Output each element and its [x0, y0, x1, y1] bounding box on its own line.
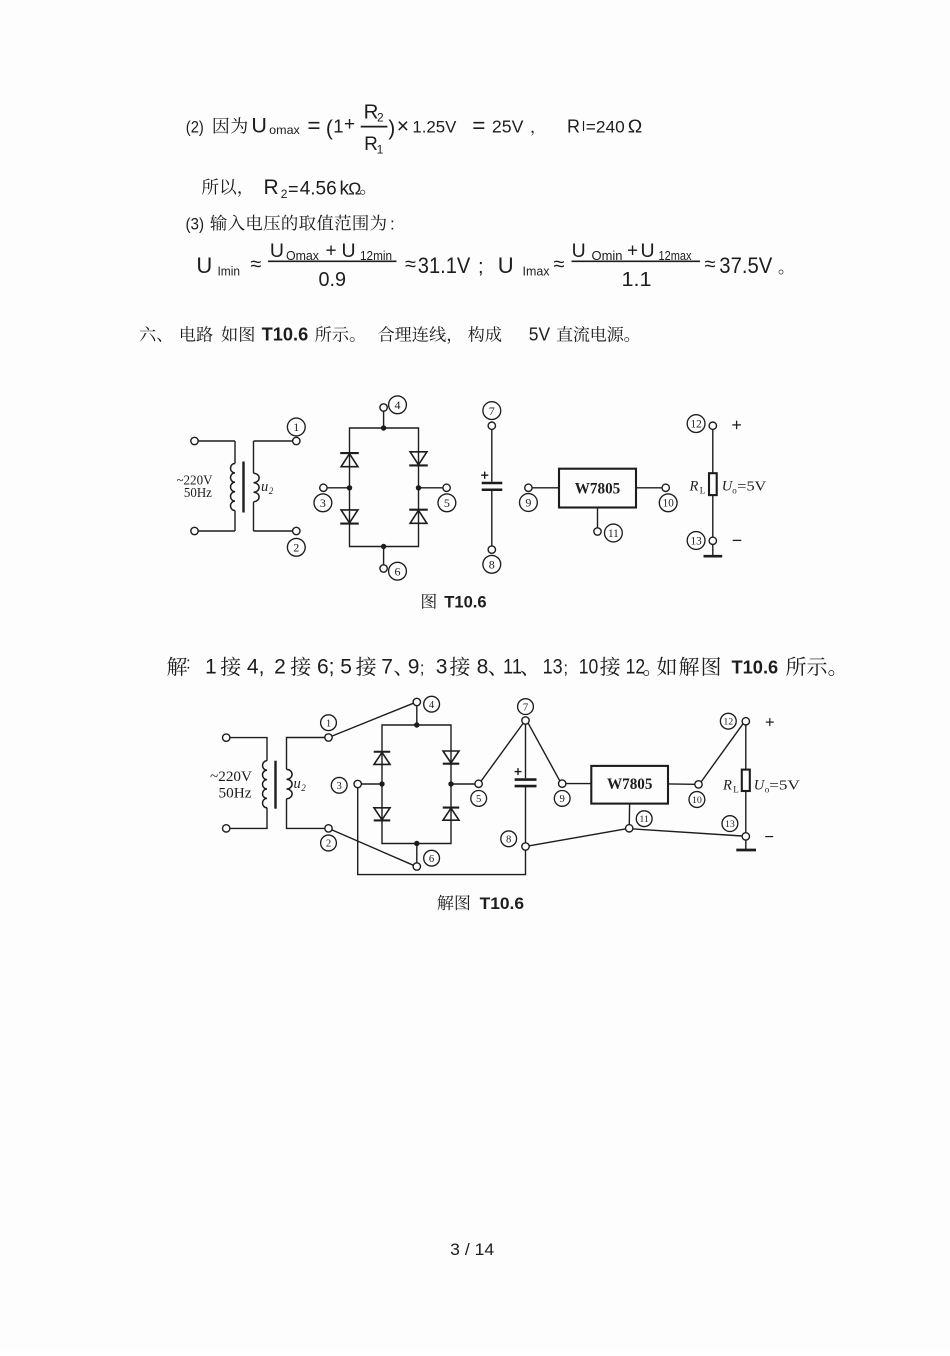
transformer T2 primary winding [263, 761, 268, 808]
svg-text:~220V: ~220V [210, 769, 252, 785]
diode D1b top-left [374, 752, 391, 765]
svg-text:;: ; [420, 659, 425, 678]
svg-text:2: 2 [326, 839, 331, 850]
svg-text:50Hz: 50Hz [184, 485, 212, 500]
svg-text:6: 6 [395, 564, 401, 578]
diode D2 bottom-left [340, 510, 359, 524]
label Uo=5V [722, 478, 767, 495]
svg-text:l: l [582, 119, 585, 134]
svg-text:10: 10 [663, 498, 675, 510]
junction dot node 3 [347, 485, 352, 490]
svg-text:×: × [397, 115, 409, 138]
svg-text:9: 9 [525, 496, 531, 510]
svg-text:=: = [288, 179, 299, 199]
label ~220V 50Hz [177, 472, 213, 500]
terminal small circle 11b [626, 825, 633, 832]
svg-text:=: = [472, 113, 485, 138]
svg-text:0.9: 0.9 [319, 269, 347, 291]
svg-text::: : [390, 215, 395, 234]
node 9 label b [554, 791, 570, 807]
svg-text:(2): (2) [186, 119, 204, 137]
svg-text:13: 13 [725, 819, 735, 830]
svg-text:10: 10 [579, 656, 599, 679]
terminal small circle 10b [695, 781, 702, 788]
svg-text:L: L [700, 485, 706, 495]
minus sign output [733, 539, 742, 541]
terminal small circle 8b [522, 843, 529, 850]
node 3 label b [331, 777, 347, 793]
terminal small circle 6b [413, 863, 420, 870]
terminal small circle 12b [742, 718, 749, 725]
svg-text:Imin: Imin [218, 265, 241, 279]
svg-text:+: + [326, 241, 337, 262]
wire 2 to 6 [332, 830, 413, 865]
terminal small circle 10 [662, 484, 669, 491]
wire 4 to bridge [416, 706, 418, 725]
regulator U2 W7805 box [591, 766, 668, 804]
svg-text:3: 3 [320, 496, 326, 510]
terminal small circle 3 [320, 484, 327, 491]
svg-text:25V: 25V [492, 117, 524, 137]
svg-text:R: R [722, 777, 732, 793]
svg-text:1: 1 [333, 116, 343, 137]
junction dot bottom b [414, 841, 419, 846]
svg-text:11: 11 [503, 656, 522, 679]
terminal small circle 3b [354, 780, 361, 787]
svg-text:8: 8 [489, 558, 495, 572]
label ~220V 50Hz b [210, 769, 252, 801]
svg-text:U: U [270, 240, 284, 262]
svg-text:1: 1 [377, 143, 384, 157]
svg-text:37.5V: 37.5V [719, 253, 772, 278]
terminal small circle 9b [559, 780, 566, 787]
wire 11 to 13 [633, 829, 742, 836]
node 5 label [438, 494, 456, 512]
svg-text:U: U [251, 114, 267, 138]
terminal small circle 9 [525, 484, 532, 491]
terminal small circle 11 [594, 528, 601, 535]
svg-text:U: U [641, 240, 655, 262]
svg-text:9: 9 [560, 794, 565, 805]
node 1 label b [321, 715, 337, 731]
node 9 label [520, 494, 538, 512]
node 7 label b [518, 699, 534, 715]
svg-text:11: 11 [608, 528, 619, 540]
svg-text:6;: 6; [317, 656, 335, 679]
transformer T1 core [242, 462, 244, 513]
svg-text:7: 7 [489, 404, 495, 418]
svg-text:50Hz: 50Hz [219, 785, 252, 801]
wire secondary bottom [254, 530, 293, 532]
svg-text:R: R [567, 117, 580, 137]
svg-text:;: ; [478, 256, 484, 278]
plus sign output b [766, 718, 774, 726]
capacitor C1 lead top [491, 429, 493, 481]
svg-text:U: U [572, 240, 586, 262]
svg-text:10: 10 [692, 795, 702, 806]
capacitor C2 polarity plus [515, 768, 522, 775]
svg-text:u: u [261, 479, 268, 495]
wire to terminal 3 [327, 487, 349, 489]
svg-text:U: U [498, 253, 514, 278]
solution text line [167, 654, 834, 679]
terminal small circle 1 [293, 437, 300, 444]
formula U_Imax [498, 240, 784, 291]
wire 7 to 9 [528, 723, 559, 780]
node 10 label [659, 494, 677, 512]
svg-text:1.25V: 1.25V [412, 118, 457, 137]
node 13 label b [722, 816, 738, 832]
wire 6 to bridge [416, 844, 418, 863]
wire to terminal 6 [383, 547, 385, 565]
wire T2 secondary top [287, 738, 325, 770]
svg-text:9: 9 [408, 656, 420, 679]
wire T2 primary bottom [230, 808, 267, 829]
wire primary bottom [198, 530, 235, 532]
ground bar [704, 555, 723, 558]
svg-text:5: 5 [444, 496, 450, 510]
label Uo=5V b [754, 777, 800, 794]
svg-text:2: 2 [293, 541, 299, 555]
svg-text:1: 1 [205, 656, 217, 679]
transformer T2 primary terminal bottom [223, 825, 230, 832]
terminal small circle 1b [325, 734, 332, 741]
node 1 label [287, 418, 305, 436]
terminal small circle 8 [488, 546, 495, 553]
svg-text:2: 2 [301, 783, 306, 793]
wire to terminal 4 [383, 411, 385, 428]
wire primary bottom down [234, 511, 236, 532]
node 12 label b [720, 713, 736, 729]
svg-text:U: U [196, 253, 212, 278]
svg-text:T10.6: T10.6 [262, 325, 309, 345]
svg-text:=5V: =5V [769, 777, 800, 792]
wire to terminal 5 [419, 487, 443, 489]
caption figure T10.6 [422, 594, 486, 612]
svg-text:2: 2 [274, 656, 286, 679]
svg-text:5V: 5V [529, 325, 550, 345]
svg-text:U: U [342, 240, 356, 262]
ground stub [712, 545, 714, 557]
node 6 label b [424, 850, 440, 866]
svg-text:=240: =240 [586, 118, 625, 137]
svg-text:5: 5 [476, 794, 481, 805]
wire 8 to 11 [529, 829, 625, 846]
terminal small circle 5 [443, 484, 450, 491]
wire secondary top riser [253, 441, 255, 473]
wire secondary top [254, 440, 293, 442]
svg-text:31.1V: 31.1V [418, 253, 471, 278]
transformer T1 primary winding [230, 464, 235, 511]
bridge rectifier B1 outline [350, 428, 419, 547]
transformer T1 primary terminal bottom [191, 527, 198, 534]
svg-text:Ω: Ω [628, 117, 643, 137]
minus sign output b [765, 836, 773, 838]
svg-text:4,: 4, [247, 656, 265, 679]
terminal small circle 6 [380, 565, 387, 572]
node 11 label b [636, 811, 652, 827]
regulator U1 W7805 box [559, 469, 636, 508]
wire regulator to 10b [668, 783, 695, 785]
svg-text:2: 2 [281, 187, 288, 201]
bridge rectifier B2 outline [382, 725, 451, 844]
node 4 label [389, 396, 407, 414]
svg-text:(3): (3) [186, 216, 205, 234]
node 3 label [314, 494, 332, 512]
wire 3 to 8 long [358, 788, 526, 875]
diode D1 top-left [340, 453, 359, 467]
wire T2 primary top [230, 738, 267, 761]
svg-text:4: 4 [395, 398, 401, 412]
capacitor C2 lead top [525, 724, 527, 778]
svg-text:omax: omax [269, 124, 300, 137]
svg-text:≈: ≈ [554, 254, 565, 276]
label u2 secondary voltage [261, 479, 274, 496]
svg-text:2: 2 [269, 486, 274, 496]
svg-text:1.1: 1.1 [622, 269, 652, 291]
junction dot top b [414, 722, 419, 727]
svg-text:8: 8 [477, 656, 489, 679]
svg-text:): ) [388, 117, 395, 140]
svg-text:7: 7 [523, 702, 529, 713]
svg-text:;: ; [563, 659, 568, 678]
text line suoyi R2=4.56k [202, 176, 365, 201]
node 6 label [389, 562, 407, 580]
wire secondary bottom riser [253, 502, 255, 531]
wire 9 to regulator [532, 487, 559, 489]
svg-text:Imax: Imax [523, 265, 551, 279]
node 8 label b [501, 831, 517, 847]
junction dot node 6 [381, 544, 386, 549]
wire 5 to 7 [481, 724, 523, 781]
svg-text:3 / 14: 3 / 14 [450, 1240, 494, 1259]
node 8 label [483, 555, 501, 573]
label RL2 [722, 777, 739, 794]
svg-text:W7805: W7805 [575, 480, 621, 497]
svg-text:(: ( [326, 117, 333, 140]
transformer T2 primary terminal top [223, 734, 230, 741]
node 13 label [687, 532, 705, 550]
fraction R2 over R1 [361, 100, 388, 156]
svg-text:12: 12 [691, 419, 702, 431]
svg-text:≈: ≈ [250, 254, 261, 276]
node 2 label b [321, 835, 337, 851]
wire T2 secondary bottom [287, 799, 325, 829]
svg-text:L: L [733, 784, 739, 794]
svg-text:11: 11 [639, 814, 649, 825]
text line (2) formula [186, 113, 643, 140]
transformer T2 core [274, 761, 276, 809]
svg-text:≈: ≈ [705, 254, 716, 276]
capacitor C2 plates [515, 780, 537, 787]
diode D3b top-right [443, 751, 460, 764]
svg-text:=5V: =5V [737, 478, 766, 493]
svg-text:13: 13 [691, 535, 703, 547]
diode D3 top-right [409, 452, 428, 466]
svg-text:1: 1 [293, 420, 299, 434]
svg-text:7: 7 [381, 656, 393, 679]
capacitor C1 lead bottom [491, 491, 493, 546]
ground stub b [745, 840, 747, 850]
label u2 b [294, 776, 307, 793]
node 5 label b [471, 791, 487, 807]
terminal small circle 12 [709, 422, 716, 429]
wire regulator to 11b [628, 804, 630, 825]
svg-text:T10.6: T10.6 [444, 594, 486, 612]
svg-text:+: + [344, 114, 355, 135]
section title line six [140, 325, 629, 345]
svg-text:T10.6: T10.6 [732, 657, 779, 678]
svg-text:1: 1 [326, 718, 331, 729]
capacitor C1 plates [482, 483, 503, 490]
svg-text:5: 5 [340, 656, 352, 679]
load resistor RL1 [709, 473, 717, 495]
svg-text:3: 3 [436, 656, 448, 679]
wire 12 to resistor [712, 429, 714, 473]
junction dot left b [379, 781, 384, 786]
text line (3) [186, 214, 395, 233]
svg-text:12: 12 [723, 717, 733, 728]
svg-text:W7805: W7805 [607, 776, 653, 793]
svg-text:8: 8 [506, 835, 511, 846]
diode D2b bottom-left [374, 808, 391, 821]
load resistor RL2 [742, 770, 750, 791]
terminal small circle 4b [413, 698, 420, 705]
diode D4b bottom-right [443, 808, 460, 821]
node 2 label [287, 538, 305, 556]
junction dot node 4 [381, 425, 386, 430]
wire 1 to 4 [332, 703, 413, 736]
svg-text:4.56: 4.56 [300, 178, 337, 199]
svg-text:Ω: Ω [348, 178, 361, 198]
wire regulator to 10 [636, 487, 662, 489]
transformer T1 secondary winding [254, 473, 260, 502]
svg-text::: : [186, 654, 191, 673]
caption solution figure T10.6 [438, 895, 524, 913]
ground bar b [736, 849, 756, 852]
wire regulator to 11 [597, 508, 599, 528]
svg-text:R: R [264, 176, 279, 199]
svg-text:4: 4 [429, 700, 435, 711]
wire 3 to bridge [362, 783, 383, 785]
svg-text:2: 2 [377, 110, 384, 124]
wire 9 to regulator b [566, 783, 591, 785]
svg-text:13: 13 [543, 656, 563, 679]
plus sign output [732, 421, 741, 430]
svg-text:=: = [307, 113, 320, 138]
svg-text:3: 3 [337, 781, 342, 792]
svg-text:12: 12 [626, 656, 646, 679]
capacitor C2 lead bottom [525, 787, 527, 843]
wire 10 to 12 [701, 724, 742, 781]
svg-text:6: 6 [429, 854, 434, 865]
transformer T1 primary terminal top [191, 437, 198, 444]
node 12 label [687, 415, 705, 433]
wire 12 to resistor b [745, 725, 747, 770]
junction dot right b [448, 781, 453, 786]
terminal small circle 7b [522, 717, 529, 724]
formula U_Imin [196, 240, 483, 291]
terminal small circle 13b [742, 833, 749, 840]
node 10 label b [689, 792, 705, 808]
wire primary left down [234, 441, 236, 464]
terminal small circle 2b [325, 825, 332, 832]
wire primary top [198, 440, 235, 442]
transformer T2 secondary winding [287, 769, 293, 798]
terminal small circle 5b [475, 780, 482, 787]
junction dot node 5 [416, 485, 421, 490]
diode D4 bottom-right [409, 510, 428, 524]
svg-text:+: + [627, 241, 638, 262]
terminal small circle 2 [293, 527, 300, 534]
terminal small circle 4 [380, 404, 387, 411]
svg-text:≈: ≈ [405, 254, 416, 276]
wire resistor to 13b [745, 791, 747, 833]
node 11 label [605, 524, 623, 542]
terminal small circle 13 [709, 537, 716, 544]
capacitor C1 polarity plus [481, 472, 488, 479]
svg-text:u: u [294, 776, 301, 792]
terminal small circle 7 [488, 422, 495, 429]
node 4 label b [424, 696, 440, 712]
node 7 label [483, 402, 501, 420]
wire bridge to 5b [451, 783, 475, 785]
svg-text:R: R [689, 478, 699, 494]
svg-text:T10.6: T10.6 [480, 895, 524, 913]
label RL1 [689, 478, 706, 495]
wire resistor to 13 [712, 495, 714, 537]
